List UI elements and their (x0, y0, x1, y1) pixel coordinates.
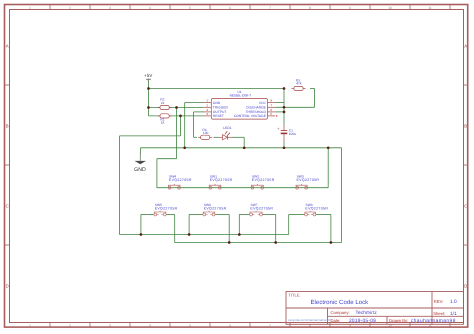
resistor R1 1k (158, 114, 172, 125)
wire right vertical to C1 and bus (283, 89, 285, 125)
svg-text:easyeda.com/chauhannaman98: easyeda.com/chauhannaman98 (288, 318, 331, 322)
junction node gnd bus / top switch chain (327, 146, 330, 149)
junction node reset bus / SW6 (188, 233, 191, 236)
svg-text:Electronic Code Lock: Electronic Code Lock (311, 299, 370, 306)
svg-text:GND: GND (134, 167, 146, 173)
svg-text:C: C (6, 203, 9, 208)
junction node gnd bus / C1 (283, 146, 286, 149)
wire taps SW7 (238, 215, 240, 235)
wire output to R4/LED (194, 111, 204, 113)
svg-text:4: 4 (149, 323, 151, 327)
svg-text:100: 100 (203, 131, 209, 135)
svg-text:EVQ22705R: EVQ22705R (169, 178, 192, 182)
svg-text:B: B (464, 123, 467, 128)
svg-text:chauhannaman98: chauhannaman98 (411, 318, 456, 324)
svg-text:EVQ22705R: EVQ22705R (250, 206, 273, 210)
capacitor C1 100u polarized (277, 125, 296, 142)
svg-text:2: 2 (69, 6, 71, 10)
junction node R2 left / supply rail (147, 106, 150, 109)
svg-text:LED1: LED1 (223, 126, 231, 130)
switch SW4 EVQ22705R (168, 175, 192, 190)
svg-text:2: 2 (69, 323, 71, 327)
wire upper bottom bus (120, 234, 289, 236)
svg-text:Drawn By:: Drawn By: (389, 318, 408, 323)
resistor R4 100 (198, 128, 212, 140)
switch SW6 EVQ22705R (203, 203, 227, 216)
wire R1 row to reset (149, 115, 204, 117)
junction node lower bus / SW8 (330, 241, 333, 244)
svg-text:C: C (464, 203, 467, 208)
svg-text:Sheet:: Sheet: (433, 311, 445, 316)
ground GND (134, 153, 146, 173)
svg-text:EVQ22705R: EVQ22705R (155, 206, 178, 210)
resistor R2 1k (158, 98, 172, 110)
svg-text:100u: 100u (289, 132, 297, 136)
svg-text:3: 3 (109, 323, 111, 327)
svg-text:DISCHARGE: DISCHARGE (246, 106, 266, 110)
svg-text:B: B (6, 123, 9, 128)
junction node reset junction (179, 115, 182, 118)
svg-text:+5V: +5V (144, 73, 153, 78)
svg-text:EVQ22705R: EVQ22705R (305, 206, 328, 210)
svg-text:Techmirtz: Techmirtz (356, 310, 378, 316)
resistor R3 47k (292, 79, 306, 91)
svg-text:2: 2 (206, 103, 208, 107)
svg-text:7: 7 (269, 6, 271, 10)
wire gnd bus (141, 147, 342, 149)
junction node gnd bus / LED return (243, 146, 246, 149)
wire taps SW5 (140, 215, 142, 235)
svg-text:10: 10 (388, 6, 392, 10)
junction node gnd bus / U1 gnd (183, 146, 186, 149)
svg-text:8: 8 (270, 99, 272, 103)
op-amp U1 NE555 timer (204, 90, 278, 119)
junction node trigger junction (175, 106, 178, 109)
junction node VCC rail / R3 left (283, 87, 286, 90)
svg-text:1: 1 (29, 6, 31, 10)
wire top rail (149, 88, 285, 90)
svg-text:5: 5 (189, 6, 191, 10)
junction node discharge pin (283, 106, 286, 109)
svg-text:A: A (464, 43, 467, 48)
wire gnd pin down (185, 102, 204, 104)
junction node +5V rail / supply stem (147, 87, 150, 90)
wire R3 right loop (310, 88, 315, 90)
svg-text:Company:: Company: (331, 310, 350, 315)
junction node reset bus / SW5 (140, 233, 143, 236)
svg-text:5: 5 (270, 112, 272, 116)
svg-text:VCC: VCC (259, 101, 267, 105)
svg-text:A: A (6, 43, 9, 48)
svg-text:4: 4 (206, 112, 208, 116)
wire gnd tap (140, 148, 142, 154)
svg-text:GND: GND (213, 101, 221, 105)
wire trigger junction down to top switch row (176, 108, 178, 159)
LED LED1 (218, 126, 231, 140)
svg-text:REV:: REV: (434, 299, 444, 304)
wire lower bottom bus (175, 242, 342, 244)
svg-text:D: D (6, 283, 9, 288)
svg-text:5: 5 (189, 323, 191, 327)
svg-text:8: 8 (309, 6, 311, 10)
svg-text:D: D (464, 283, 467, 288)
power flag +5V (144, 73, 153, 81)
svg-text:1: 1 (206, 99, 208, 103)
wire reset junction to left rail (180, 116, 182, 136)
svg-text:TRIGGER: TRIGGER (213, 106, 229, 110)
switch SW1 EVQ22705R (209, 175, 233, 190)
svg-text:1.0: 1.0 (450, 299, 457, 305)
svg-text:1k: 1k (161, 121, 165, 125)
wire threshold (275, 111, 284, 113)
svg-text:EVQ22705R: EVQ22705R (297, 178, 320, 182)
switch SW7 EVQ22705R (250, 203, 274, 216)
switch SW2 EVQ22705R (251, 175, 275, 190)
svg-text:1k: 1k (161, 101, 165, 105)
svg-text:RESET: RESET (213, 114, 224, 118)
wire right tall vertical (341, 148, 343, 243)
junction node lower bus / SW6 (228, 241, 231, 244)
svg-text:7: 7 (269, 323, 271, 327)
title block (286, 292, 464, 325)
svg-text:EVQ22705R: EVQ22705R (210, 178, 233, 182)
svg-text:1: 1 (29, 323, 31, 327)
svg-text:EVQ22705R: EVQ22705R (204, 206, 227, 210)
svg-text:11: 11 (428, 6, 432, 10)
svg-text:Date:: Date: (331, 318, 341, 323)
svg-text:NE555L-D08-T: NE555L-D08-T (230, 94, 251, 98)
svg-text:3: 3 (109, 6, 111, 10)
wire +5V stub (148, 81, 150, 116)
wire vcc (275, 102, 284, 104)
svg-text:6: 6 (229, 6, 231, 10)
junction node reset bus / SW7 (238, 233, 241, 236)
svg-text:2019-05-09: 2019-05-09 (349, 318, 376, 324)
svg-text:TITLE:: TITLE: (289, 292, 301, 297)
switch SW5 EVQ22705R (154, 203, 178, 216)
svg-text:EVQ22705R: EVQ22705R (252, 178, 275, 182)
wire R2 row to trigger (149, 107, 204, 109)
wire taps SW6 (188, 215, 190, 235)
svg-text:47k: 47k (296, 82, 302, 86)
switch SW3 EVQ22705R (296, 175, 320, 190)
svg-text:9: 9 (349, 6, 351, 10)
svg-text:4: 4 (149, 6, 151, 10)
wire taps SW8 (288, 215, 290, 235)
svg-text:7: 7 (270, 103, 272, 107)
junction node threshold pin (283, 111, 286, 114)
switch SW8 EVQ22705R (305, 203, 329, 216)
wire top switch row (157, 187, 328, 189)
svg-text:CONTROL VOLTAGE: CONTROL VOLTAGE (234, 114, 267, 118)
junction node lower bus / SW7 (274, 241, 277, 244)
svg-text:6: 6 (229, 323, 231, 327)
svg-text:1/1: 1/1 (450, 311, 457, 317)
